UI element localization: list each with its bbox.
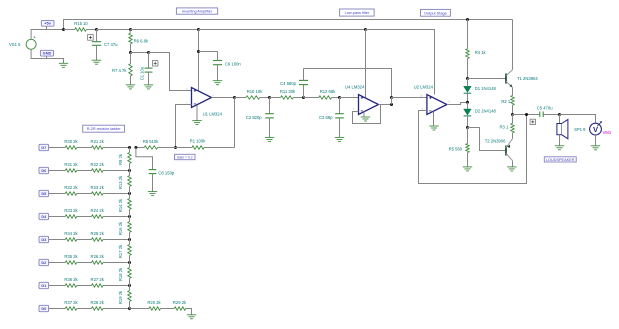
svg-text:VS1 5: VS1 5 xyxy=(9,42,21,47)
svg-text:R25 2k: R25 2k xyxy=(91,231,105,236)
svg-text:R20 2k: R20 2k xyxy=(147,300,161,305)
resistor R8 xyxy=(136,139,176,149)
svg-text:R21 2k: R21 2k xyxy=(91,139,105,144)
wire +5V rail xyxy=(64,20,513,30)
resistor R4 xyxy=(466,20,487,79)
resistor R14 xyxy=(118,194,131,217)
node U4 supply tap xyxy=(364,28,367,31)
node ladder row D5 xyxy=(128,192,131,195)
wire T1 emitter to R2 xyxy=(512,87,514,95)
svg-text:SP1 8: SP1 8 xyxy=(574,127,586,132)
capacitor C6 xyxy=(213,61,242,81)
svg-text:R15 10: R15 10 xyxy=(74,21,88,26)
svg-text:R5 560: R5 560 xyxy=(449,147,463,152)
capacitor C8 xyxy=(136,148,175,192)
ground at T2 xyxy=(507,167,516,171)
svg-text:GND: GND xyxy=(43,51,52,56)
wire D1 lead xyxy=(49,285,66,287)
voltmeter VM1 xyxy=(590,121,612,135)
wire T2 base xyxy=(468,128,507,151)
svg-text:R17 2k: R17 2k xyxy=(118,244,123,258)
svg-text:C8 150p: C8 150p xyxy=(158,171,175,176)
resistor R16 xyxy=(118,217,131,240)
resistor R36 xyxy=(64,277,78,287)
svg-text:R9 2k: R9 2k xyxy=(118,153,123,165)
wire R20 to R29 xyxy=(161,308,175,310)
flag D0 xyxy=(39,305,49,311)
svg-text:R1 100k: R1 100k xyxy=(190,138,207,143)
resistor R7 xyxy=(112,53,132,85)
resistor R34 xyxy=(64,231,78,241)
wire C4 feedback top xyxy=(304,69,392,98)
node R6 tap xyxy=(129,28,132,31)
svg-text:R19 2k: R19 2k xyxy=(118,290,123,304)
capacitor C5 470u xyxy=(537,105,554,117)
node T1 base tap xyxy=(466,77,469,80)
label box: R-2R resistor ladder xyxy=(83,125,125,132)
svg-text:Inverting Amplifier: Inverting Amplifier xyxy=(182,10,213,14)
wire R12 to C3 node xyxy=(332,97,340,99)
svg-text:R32 2k: R32 2k xyxy=(64,185,78,190)
node ladder row D4 xyxy=(128,215,131,218)
wire R32 to R23 xyxy=(77,193,92,195)
capacitor C7 xyxy=(92,30,118,61)
resistor R25 xyxy=(91,231,105,241)
label box: Low-pass filter xyxy=(340,9,375,16)
svg-text:U4 LM324: U4 LM324 xyxy=(345,85,365,90)
svg-text:R24 2k: R24 2k xyxy=(91,208,105,213)
node U1 output xyxy=(233,96,236,99)
wire R36 to R27 xyxy=(77,285,92,287)
svg-text:R28 2k: R28 2k xyxy=(91,300,105,305)
op-amp U2 xyxy=(414,85,447,115)
wire speaker node to voltmeter xyxy=(560,115,596,124)
flag D5 xyxy=(39,190,49,196)
polarity mark C7 xyxy=(88,35,94,41)
svg-text:R11 30k: R11 30k xyxy=(280,89,296,94)
resistor R23 xyxy=(91,185,105,195)
resistor R1 xyxy=(176,138,235,149)
resistor R6 xyxy=(129,30,149,53)
wire C4 node to R12 xyxy=(304,97,319,99)
node U4 output jog top xyxy=(390,96,393,99)
node C6 tap xyxy=(197,50,200,53)
svg-text:R23 2k: R23 2k xyxy=(91,185,105,190)
svg-text:R4 1k: R4 1k xyxy=(475,50,487,55)
node U4 output jog bottom xyxy=(390,103,393,106)
resistor R29 xyxy=(173,300,187,310)
svg-text:D3: D3 xyxy=(41,238,46,242)
flag D2 xyxy=(39,259,49,265)
resistor R5 xyxy=(449,128,470,167)
resistor R31 xyxy=(64,162,78,172)
svg-text:R2 1: R2 1 xyxy=(501,99,511,104)
svg-text:R30 2k: R30 2k xyxy=(64,139,78,144)
wire D7 lead xyxy=(49,147,66,149)
svg-text:D2: D2 xyxy=(41,261,46,265)
label box: LOUDSPEAKER xyxy=(544,157,576,162)
wire R26 to ladder node xyxy=(103,262,130,264)
svg-text:T2 2N3906: T2 2N3906 xyxy=(485,139,506,144)
polarity mark C1 xyxy=(153,61,158,66)
wire C6 branch xyxy=(199,52,218,61)
wire R37 to R28 xyxy=(77,308,92,310)
svg-text:D1 1N4148: D1 1N4148 xyxy=(475,86,497,91)
wire R10 to C2 node xyxy=(260,97,270,99)
svg-text:VM1: VM1 xyxy=(603,130,612,135)
resistor R18 xyxy=(118,263,131,286)
resistor R26 xyxy=(91,254,105,264)
wire R23 to ladder node xyxy=(103,193,130,195)
svg-text:D7: D7 xyxy=(41,146,46,150)
wire R21 to ladder node xyxy=(103,147,130,149)
ground at VS1 xyxy=(59,63,68,67)
ground at ladder xyxy=(187,315,196,319)
diode D1 1N4148 xyxy=(464,79,497,103)
node C3 tap xyxy=(338,96,341,99)
wire D4 lead xyxy=(49,216,66,218)
svg-text:R29 2k: R29 2k xyxy=(173,300,187,305)
svg-text:C3 68p: C3 68p xyxy=(319,115,333,120)
pin numbers U1 xyxy=(186,87,215,105)
node U1 supply tap xyxy=(197,28,200,31)
wire R33 to R24 xyxy=(77,216,92,218)
svg-text:R8 510k: R8 510k xyxy=(143,139,160,144)
resistor R28 xyxy=(91,300,105,310)
voltage source VS1 xyxy=(9,36,36,49)
svg-text:R31 2k: R31 2k xyxy=(64,162,78,167)
node feedback tap xyxy=(525,113,528,116)
wire D5 lead xyxy=(49,193,66,195)
svg-text:D1: D1 xyxy=(41,284,46,288)
node output junction xyxy=(511,113,514,116)
wire R34 to R25 xyxy=(77,239,92,241)
resistor R10 xyxy=(246,89,263,99)
node C4 tap xyxy=(302,96,305,99)
node divider mid xyxy=(129,51,132,54)
capacitor C2 xyxy=(246,98,274,138)
resistor R3 xyxy=(500,115,515,139)
resistor R35 xyxy=(64,254,78,264)
wire R30 to R21 xyxy=(77,147,92,149)
node ladder row D6 xyxy=(128,169,131,172)
ground at speaker xyxy=(555,146,564,150)
node ladder row D1 xyxy=(128,284,131,287)
wire U1 out to R10 xyxy=(235,97,247,99)
wire ladder bottom to R20 xyxy=(130,308,150,310)
svg-text:D0: D0 xyxy=(41,307,46,311)
svg-text:R36 2k: R36 2k xyxy=(64,277,78,282)
resistor R24 xyxy=(91,208,105,218)
node U2 out to diodes xyxy=(466,101,469,104)
resistor R13 xyxy=(118,171,131,194)
resistor R15 xyxy=(74,21,88,31)
svg-text:R34 2k: R34 2k xyxy=(64,231,78,236)
resistor R20 xyxy=(147,300,161,310)
svg-text:D6: D6 xyxy=(41,169,46,173)
wire R29 to ground xyxy=(186,309,192,315)
node C1 tap xyxy=(147,51,150,54)
svg-text:LOUDSPEAKER: LOUDSPEAKER xyxy=(546,158,575,162)
flag D7 xyxy=(39,144,49,150)
node speaker tap xyxy=(558,113,561,116)
wire U2 V- to ground xyxy=(433,112,435,127)
wire VS1 bottom to ground xyxy=(31,49,63,63)
capacitor C3 xyxy=(319,98,344,138)
wire T1 collector to rail xyxy=(512,20,514,70)
flag D6 xyxy=(39,167,49,173)
wire C7 node to R6 node xyxy=(97,29,131,31)
wire U1 V+ drop xyxy=(198,30,200,92)
wire R27 to ladder node xyxy=(103,285,130,287)
wire R35 to R26 xyxy=(77,262,92,264)
svg-text:R-2R resistor ladder: R-2R resistor ladder xyxy=(87,127,122,131)
flag D3 xyxy=(39,236,49,242)
node ladder row D0 xyxy=(128,307,131,310)
wire U4 V- to ground xyxy=(363,112,365,118)
ground at R7 xyxy=(126,85,135,89)
svg-text:C4 680p: C4 680p xyxy=(280,81,297,86)
svg-text:+5v: +5v xyxy=(44,21,51,26)
wire output node to C5 xyxy=(513,114,540,116)
wire R25 to ladder node xyxy=(103,239,130,241)
resistor R30 xyxy=(64,139,78,149)
wire R15 left lead xyxy=(64,29,75,31)
transistor T2 2N3906 xyxy=(485,139,513,161)
resistor R21 xyxy=(91,139,105,149)
wire divider to U1 +input xyxy=(149,53,192,91)
svg-text:C1 10u: C1 10u xyxy=(140,66,145,80)
wire U4 supply node to U2 supply drop xyxy=(366,30,435,95)
resistor R33 xyxy=(64,208,78,218)
wire D3 lead xyxy=(49,239,66,241)
node T2 base tap xyxy=(466,126,469,129)
wire R1 riser to U1 output xyxy=(234,98,236,148)
op-amp U1 xyxy=(192,88,223,117)
wire U1 -input riser xyxy=(176,105,192,148)
resistor R22 xyxy=(91,162,105,172)
svg-text:R12 68k: R12 68k xyxy=(320,89,337,94)
flag D1 xyxy=(39,282,49,288)
svg-text:R10 10k: R10 10k xyxy=(247,89,264,94)
wire U2 output to diode node xyxy=(447,103,468,105)
wire U2 feedback loop xyxy=(419,111,527,184)
wire U1 V- to ground xyxy=(196,105,198,120)
svg-text:C2 820p: C2 820p xyxy=(246,115,263,120)
ground at C7 xyxy=(92,60,101,64)
node ladder row D3 xyxy=(128,238,131,241)
ground at U4 xyxy=(361,117,370,121)
svg-text:D2 1N4148: D2 1N4148 xyxy=(475,108,497,113)
svg-text:Output Stage: Output Stage xyxy=(424,10,447,15)
svg-text:C7 47u: C7 47u xyxy=(104,42,118,47)
wire R28 to ladder node xyxy=(103,308,130,310)
wire U1 supply node to U4 supply node xyxy=(199,29,366,31)
wire D2 lead xyxy=(49,262,66,264)
ground at U1 xyxy=(192,121,201,125)
svg-text:C5 470u: C5 470u xyxy=(537,105,554,110)
svg-text:R7 4.7k: R7 4.7k xyxy=(112,68,127,73)
ground at C2 xyxy=(265,137,274,141)
flag D4 xyxy=(39,213,49,219)
capacitor C1 xyxy=(140,53,153,85)
wire VS1 top to +5V node xyxy=(31,30,63,40)
wire R11 to C4 node xyxy=(293,97,303,99)
svg-text:R13 2k: R13 2k xyxy=(118,175,123,189)
node +5V tap xyxy=(62,28,65,31)
resistor R32 xyxy=(64,185,78,195)
label box: Inverting Amplifier xyxy=(176,8,217,14)
wire T2 collector to ground xyxy=(512,161,514,167)
ground at VM1 xyxy=(591,146,600,150)
ground at U2 xyxy=(429,126,438,130)
svg-text:Gain = 0.2: Gain = 0.2 xyxy=(177,156,193,160)
label box: Output Stage xyxy=(421,9,451,16)
resistor R37 xyxy=(64,300,78,310)
node U1 -input on feedback line xyxy=(174,146,177,149)
svg-text:R18 2k: R18 2k xyxy=(118,267,123,281)
op-amp U4 xyxy=(345,85,379,115)
svg-text:R27 2k: R27 2k xyxy=(91,277,105,282)
diode D2 1N4148 xyxy=(464,102,497,127)
ground at C8 xyxy=(148,192,157,196)
wire voltmeter to ground xyxy=(595,135,597,146)
svg-text:R26 2k: R26 2k xyxy=(91,254,105,259)
polarity mark C5 xyxy=(530,119,535,124)
svg-text:R6 6.8k: R6 6.8k xyxy=(134,39,149,44)
wire R22 to ladder node xyxy=(103,170,130,172)
resistor R11 xyxy=(280,89,296,99)
wire U4 output xyxy=(379,104,392,106)
wire C5 to speaker node xyxy=(544,114,560,116)
flag GND xyxy=(40,50,53,58)
resistor R17 xyxy=(118,240,131,263)
wire R24 to ladder node xyxy=(103,216,130,218)
ground at R5 xyxy=(463,167,472,171)
wire divider to C1 xyxy=(131,52,149,54)
svg-text:T1 2N3904: T1 2N3904 xyxy=(517,76,538,81)
resistor R2 xyxy=(501,96,514,115)
svg-text:R22 2k: R22 2k xyxy=(91,162,105,167)
svg-text:R16 2k: R16 2k xyxy=(118,221,123,235)
node R4 rail tap xyxy=(466,18,469,21)
pin numbers U2 xyxy=(420,93,450,111)
wire R6 node to U1 supply node xyxy=(131,29,199,31)
wire U1 output xyxy=(212,97,235,99)
svg-text:C6 100n: C6 100n xyxy=(225,61,242,66)
ground at C3 xyxy=(335,137,344,141)
node ladder row D7 xyxy=(128,146,131,149)
wire U4 V+ drop xyxy=(365,30,367,98)
transistor T1 2N3904 xyxy=(506,70,538,88)
loudspeaker SP1 xyxy=(557,115,586,146)
svg-text:R14 2k: R14 2k xyxy=(118,198,123,212)
svg-text:R37 2k: R37 2k xyxy=(64,300,78,305)
ground at C6 xyxy=(213,81,222,85)
svg-text:R3 1: R3 1 xyxy=(500,125,510,130)
svg-text:U1 LM324: U1 LM324 xyxy=(203,111,223,116)
resistor R27 xyxy=(91,277,105,287)
node C8 tap xyxy=(134,146,137,149)
svg-text:Low-pass filter: Low-pass filter xyxy=(345,11,370,15)
wire D0 lead xyxy=(49,308,66,310)
wire D6 lead xyxy=(49,170,66,172)
wire C3 node to U4 +input xyxy=(340,97,359,99)
label box: Gain = 0.2 xyxy=(175,154,196,159)
resistor R12 xyxy=(319,89,336,99)
svg-text:R33 2k: R33 2k xyxy=(64,208,78,213)
flag +5v xyxy=(41,20,54,29)
node C2 tap xyxy=(268,96,271,99)
wire U4 feedback loop xyxy=(353,105,381,124)
pin numbers U4 xyxy=(353,93,382,111)
svg-text:U2 LM324: U2 LM324 xyxy=(414,85,434,90)
resistor R19 xyxy=(118,286,131,309)
svg-text:R35 2k: R35 2k xyxy=(64,254,78,259)
wire U4 out jog xyxy=(392,98,427,105)
resistor R9 xyxy=(118,148,131,171)
wire R15 to C7 node xyxy=(86,29,96,31)
ground at C1 xyxy=(144,85,153,89)
wire C2 node to R11 xyxy=(270,97,281,99)
node C7 tap xyxy=(95,28,98,31)
capacitor C4 xyxy=(280,69,308,98)
wire R31 to R22 xyxy=(77,170,92,172)
svg-text:D5: D5 xyxy=(41,192,46,196)
wire T1 base xyxy=(468,78,507,80)
node ladder row D2 xyxy=(128,261,131,264)
